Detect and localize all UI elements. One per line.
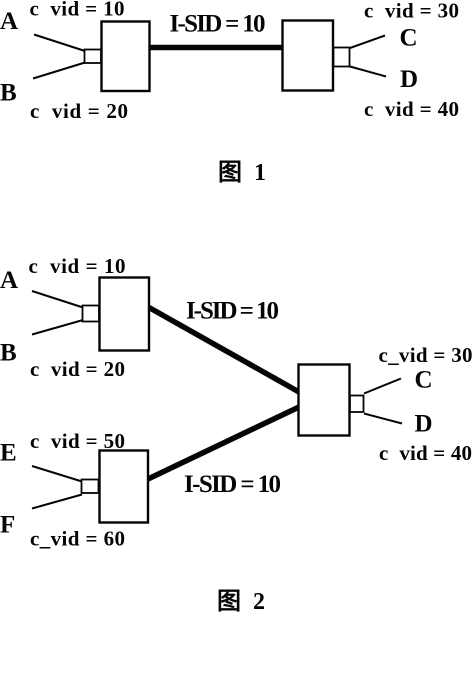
svg-text:E: E xyxy=(0,440,17,467)
svg-text:B: B xyxy=(0,340,17,367)
svg-text:c_vid = 60: c_vid = 60 xyxy=(30,527,125,551)
svg-text:2: 2 xyxy=(253,589,265,615)
svg-text:A: A xyxy=(0,8,18,35)
trunk wire lower I-SID (fig2) xyxy=(148,407,299,479)
bridge box lower-left (fig2) xyxy=(100,451,149,523)
wire from funnel to C (fig1) xyxy=(350,36,385,49)
svg-text:图: 图 xyxy=(218,159,242,186)
wire from funnel to D (fig1) xyxy=(350,67,386,77)
wire from E to funnel (fig2) xyxy=(32,466,82,482)
port funnel on lower-left bridge (fig2) xyxy=(82,480,99,494)
svg-text:F: F xyxy=(0,512,15,539)
wire from B to funnel (fig1) xyxy=(33,63,85,79)
svg-text:c vid = 10: c vid = 10 xyxy=(30,0,125,21)
svg-text:C: C xyxy=(415,367,433,394)
svg-text:D: D xyxy=(400,66,418,93)
port funnel on left bridge (fig1) xyxy=(85,50,102,64)
wire from F to funnel (fig2) xyxy=(32,495,82,509)
port funnel on right bridge (fig1) xyxy=(334,48,350,67)
bridge box right (fig2) xyxy=(299,365,350,436)
wire from A to funnel (fig1) xyxy=(34,35,85,52)
wire from B to funnel (fig2) xyxy=(32,320,83,335)
wire from funnel to C (fig2) xyxy=(364,379,401,394)
svg-text:c vid = 40: c vid = 40 xyxy=(379,441,472,465)
svg-text:c vid = 20: c vid = 20 xyxy=(30,99,128,123)
svg-text:c vid = 30: c vid = 30 xyxy=(364,0,459,23)
svg-text:B: B xyxy=(0,80,17,107)
port funnel on right bridge (fig2) xyxy=(350,396,364,413)
svg-text:C: C xyxy=(400,25,418,52)
svg-text:c_vid = 30: c_vid = 30 xyxy=(379,343,473,367)
svg-text:c vid = 40: c vid = 40 xyxy=(364,97,459,121)
svg-text:D: D xyxy=(415,411,433,438)
port funnel on upper-left bridge (fig2) xyxy=(83,306,100,322)
svg-text:c vid = 20: c vid = 20 xyxy=(30,357,125,381)
bridge box upper-left (fig2) xyxy=(100,278,150,351)
bridge box right (fig1) xyxy=(283,21,334,91)
svg-text:图: 图 xyxy=(217,588,241,615)
svg-text:I-SID = 10: I-SID = 10 xyxy=(186,298,279,325)
svg-text:c vid = 10: c vid = 10 xyxy=(29,254,126,278)
wire from A to funnel (fig2) xyxy=(32,291,83,308)
svg-text:1: 1 xyxy=(254,160,266,186)
trunk wire I-SID (fig1) xyxy=(150,45,283,51)
trunk wire upper I-SID (fig2) xyxy=(149,308,299,393)
wire from funnel to D (fig2) xyxy=(364,414,402,424)
svg-text:I-SID = 10: I-SID = 10 xyxy=(170,11,266,38)
bridge box left (fig1) xyxy=(102,22,150,92)
svg-text:A: A xyxy=(0,267,18,294)
svg-text:I-SID = 10: I-SID = 10 xyxy=(184,471,281,498)
